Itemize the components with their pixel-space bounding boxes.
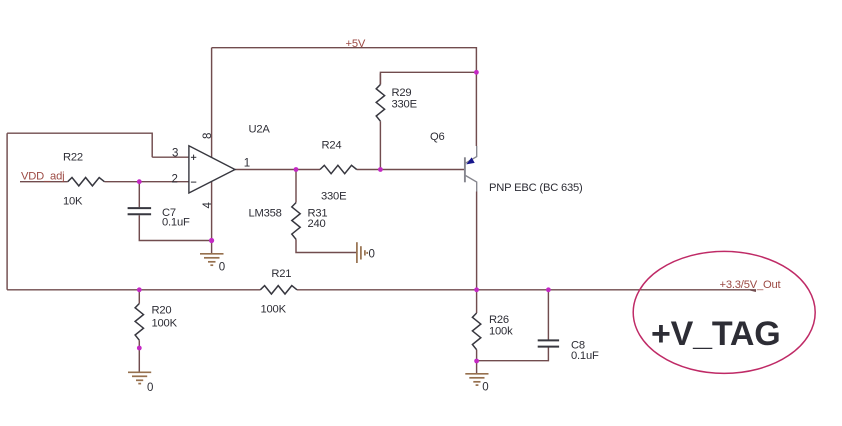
svg-text:240: 240	[308, 218, 326, 230]
svg-text:330E: 330E	[321, 191, 346, 203]
transistor Q2 base bar	[464, 157, 466, 182]
ground under R26	[465, 374, 488, 385]
wire R26 bottom	[476, 350, 478, 361]
ground under R20	[128, 372, 151, 383]
wire R20 ground stub	[138, 348, 140, 372]
annotation ellipse	[633, 251, 815, 373]
resistor R26	[472, 313, 480, 350]
svg-text:VDD_adj: VDD_adj	[21, 170, 64, 182]
svg-text:U2A: U2A	[249, 123, 271, 135]
wire R29 branch from +5V node	[380, 72, 476, 84]
wire C7 top	[138, 182, 140, 208]
wire top feedback horizontal	[7, 133, 152, 157]
svg-text:100K: 100K	[261, 304, 287, 316]
transistor Q6 collector	[466, 176, 477, 192]
svg-text:PNP EBC (BC 635): PNP EBC (BC 635)	[489, 182, 583, 194]
svg-text:R24: R24	[322, 140, 342, 152]
wire R20 bottom	[138, 340, 140, 348]
svg-text:3: 3	[172, 148, 178, 160]
wire op-amp pin8 vertical	[211, 48, 213, 158]
op-amp plus input symbol	[191, 155, 196, 160]
svg-text:1: 1	[244, 158, 250, 170]
node R24/R29/base	[378, 167, 383, 172]
wire R22 to pin2	[104, 181, 188, 183]
wire Q6 collector down	[476, 192, 478, 290]
wire bottom bus right	[297, 289, 756, 291]
wire R29 bottom	[379, 121, 381, 169]
svg-text:10K: 10K	[63, 195, 83, 207]
wire R20 top	[138, 290, 140, 304]
wire pin3 horizontal	[152, 156, 189, 158]
wire output end tick	[750, 290, 756, 292]
svg-text:R21: R21	[271, 268, 291, 280]
node R26/C8/gnd	[474, 359, 479, 364]
wire bottom bus left	[7, 289, 260, 291]
node +5V/emitter	[474, 70, 479, 75]
resistor R29	[376, 85, 384, 122]
svg-text:LM358: LM358	[249, 207, 282, 219]
capacitor C7	[128, 208, 152, 214]
wire left feedback rail vertical	[6, 133, 8, 290]
svg-text:2: 2	[172, 173, 178, 185]
wire R31 bottom elbow to ground	[296, 239, 356, 252]
svg-text:Q6: Q6	[430, 131, 445, 143]
resistor R24	[320, 165, 357, 173]
node bus/R20	[137, 287, 142, 292]
node R22/C7/pin2	[137, 179, 142, 184]
node bus/collector	[474, 287, 479, 292]
node bus/C8	[546, 287, 551, 292]
transistor Q6 emitter	[466, 146, 477, 163]
wire R24 to Q6 base	[357, 169, 465, 171]
wire op-amp pin4 vertical	[211, 182, 213, 241]
node opamp out/R31	[294, 167, 299, 172]
wire C7 bottom to pin4 node	[139, 215, 211, 240]
svg-text:0.1uF: 0.1uF	[162, 216, 190, 228]
svg-text:R29: R29	[392, 87, 412, 99]
svg-text:R22: R22	[63, 151, 83, 163]
resistor R31	[292, 203, 300, 240]
ground rotated at R31	[357, 242, 367, 263]
wire C8 top	[547, 290, 549, 340]
svg-text:0: 0	[147, 382, 153, 394]
svg-text:R20: R20	[152, 304, 172, 316]
wire C8 bottom to R26 node	[477, 347, 549, 361]
resistor R21	[260, 286, 297, 294]
svg-text:+5V: +5V	[346, 38, 366, 50]
wire R26 top	[476, 290, 478, 313]
svg-text:0: 0	[482, 382, 488, 394]
wire R26 ground stub	[476, 361, 478, 373]
svg-text:8: 8	[202, 133, 214, 139]
node R20/gnd	[137, 346, 142, 351]
wire +5V rail	[212, 48, 477, 146]
wire op-amp output to R24	[235, 169, 320, 171]
op-amp minus input symbol	[191, 181, 196, 183]
svg-text:0: 0	[219, 261, 225, 273]
svg-text:330E: 330E	[392, 99, 417, 111]
node C7/pin4/gnd	[209, 238, 214, 243]
wire VDD_adj stub	[20, 181, 68, 183]
resistor R20	[135, 304, 143, 341]
svg-text:+3.3/5V_Out: +3.3/5V_Out	[720, 279, 782, 291]
wire R29 top	[379, 73, 381, 84]
svg-text:0.1uF: 0.1uF	[571, 350, 599, 362]
transistor Q6 emitter arrow	[466, 157, 474, 164]
svg-text:100k: 100k	[489, 326, 513, 338]
resistor R22	[68, 178, 105, 186]
ground under op-amp pin4	[200, 241, 224, 266]
wire R31 top	[295, 170, 297, 203]
capacitor C8	[538, 340, 559, 346]
svg-text:+V_TAG: +V_TAG	[651, 315, 781, 353]
svg-text:100K: 100K	[152, 317, 178, 329]
op-amp U2A triangle	[189, 146, 235, 193]
svg-text:R26: R26	[489, 314, 509, 326]
svg-text:4: 4	[202, 202, 214, 209]
svg-text:0: 0	[369, 249, 375, 261]
node junction dots	[137, 70, 551, 364]
